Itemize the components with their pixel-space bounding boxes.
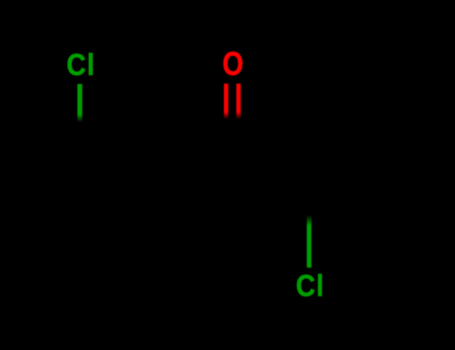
svg-text:O: O	[222, 47, 243, 83]
double bond C7=O (red halves near oxygen)	[224, 84, 228, 120]
svg-text:Cl: Cl	[67, 49, 96, 83]
svg-text:Cl: Cl	[296, 269, 325, 303]
bond C7-C2 carbonyl to CHCl (black, invisible)	[233, 150, 309, 171]
benzene ring (black bonds, invisible on black background)	[46, 166, 233, 290]
bond C2-Cl lower (green half near chlorine)	[307, 215, 312, 268]
bond C1-C7 ring to carbonyl carbon (black, invisible)	[168, 166, 233, 171]
bond C-Cl upper (green half near chlorine)	[77, 84, 82, 122]
bond C2-C3 CHCl to methyl (black, invisible)	[309, 129, 385, 150]
